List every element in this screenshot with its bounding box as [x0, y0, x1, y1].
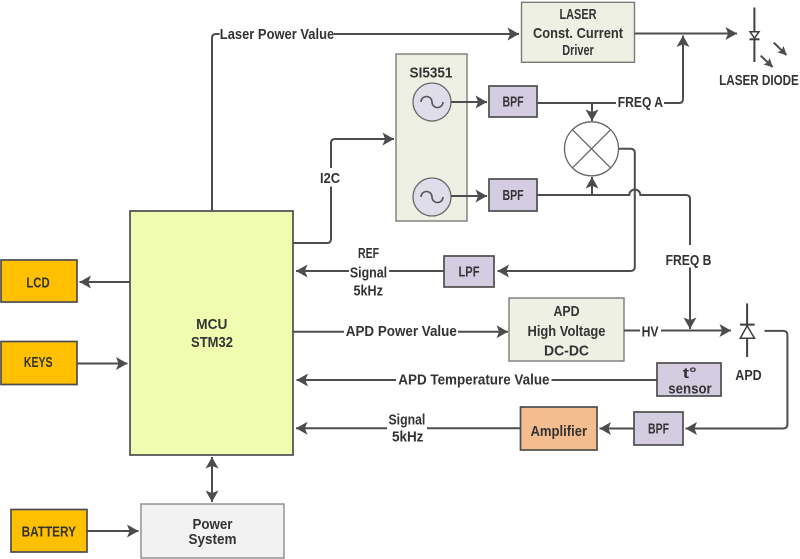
- svg-text:Amplifier: Amplifier: [530, 423, 587, 440]
- svg-text:5kHz: 5kHz: [392, 428, 424, 445]
- mixer: [565, 122, 619, 176]
- svg-text:MCU: MCU: [196, 316, 227, 333]
- wire APD Power Value from MCU: [294, 331, 345, 333]
- wire BPF3 to Amplifier: [600, 428, 635, 430]
- block MCU U1 STM32: [130, 211, 293, 455]
- wire mixer output to LPF: [498, 149, 635, 271]
- svg-text:APD: APD: [735, 367, 762, 384]
- laser diode D1: [750, 8, 760, 63]
- svg-text:APD Temperature Value: APD Temperature Value: [398, 372, 549, 389]
- wire HV from DC-DC: [624, 330, 640, 332]
- svg-text:REF: REF: [358, 245, 379, 262]
- svg-text:LCD: LCD: [26, 275, 49, 292]
- block BPF3: [634, 412, 683, 445]
- wire FREQ A from BPF1: [538, 102, 617, 104]
- wire Signal 5kHz into MCU: [296, 427, 387, 429]
- block BPF2: [489, 179, 537, 211]
- wire Laser Power Value to driver: [334, 33, 519, 35]
- block BPF1: [489, 86, 537, 117]
- wire FREQ B down to HV line: [689, 268, 691, 330]
- wire APD Temperature Value from sensor: [552, 379, 658, 381]
- block BATTERY: [11, 510, 87, 553]
- svg-text:High Voltage: High Voltage: [528, 323, 606, 340]
- wire BPF2 to FREQ B corner with hop: [538, 190, 691, 245]
- wire REF signal into MCU: [296, 270, 349, 272]
- wire OSC1 to BPF1: [451, 101, 487, 103]
- svg-text:FREQ B: FREQ B: [666, 252, 712, 269]
- svg-text:FREQ A: FREQ A: [618, 94, 663, 111]
- wire FREQ A branch down into mixer: [591, 103, 593, 121]
- block LCD: [1, 260, 77, 302]
- svg-text:Signal: Signal: [389, 411, 426, 428]
- wire Laser Power Value elbow from MCU top: [212, 34, 220, 211]
- block LASER Const. Current Driver: [522, 2, 635, 62]
- svg-text:sensor: sensor: [668, 380, 712, 397]
- block Power System: [141, 504, 284, 558]
- block SI5351 clock generator: [396, 54, 467, 221]
- wire driver output to laser diode: [635, 33, 738, 35]
- svg-text:APD Power Value: APD Power Value: [346, 323, 457, 340]
- block temperature sensor: [657, 363, 721, 397]
- svg-text:HV: HV: [642, 323, 659, 340]
- wire I2C from MCU to SI5351: [294, 187, 332, 244]
- svg-text:LASER: LASER: [560, 6, 597, 23]
- svg-text:Driver: Driver: [562, 42, 594, 59]
- svg-text:KEYS: KEYS: [24, 354, 53, 371]
- block LPF: [444, 256, 494, 287]
- laser diode emission arrow upper: [774, 43, 787, 55]
- svg-text:BPF: BPF: [503, 187, 524, 204]
- wire HV into APD: [661, 330, 731, 332]
- svg-text:Const. Current: Const. Current: [533, 25, 623, 42]
- wire APD Power Value into DC-DC: [458, 331, 508, 333]
- svg-text:System: System: [189, 531, 237, 548]
- wire REF signal from LPF: [389, 270, 444, 272]
- wire KEYS to MCU: [77, 363, 128, 365]
- wire Signal 5kHz from Amplifier: [427, 427, 521, 429]
- wire BATTERY to Power System: [87, 530, 139, 532]
- svg-text:BPF: BPF: [648, 421, 669, 438]
- block APD High Voltage DC-DC: [509, 298, 624, 361]
- svg-text:Signal: Signal: [350, 265, 387, 282]
- laser diode emission arrow lower: [761, 56, 773, 67]
- wire APD output down to BPF3: [686, 331, 788, 429]
- svg-text:5kHz: 5kHz: [354, 283, 383, 300]
- svg-text:SI5351: SI5351: [410, 65, 453, 82]
- svg-text:LPF: LPF: [459, 264, 480, 281]
- block KEYS: [1, 342, 77, 385]
- block Amplifier: [521, 407, 598, 450]
- wire BPF2 branch up into mixer: [591, 177, 593, 195]
- wire FREQ A corner up to laser line: [664, 36, 683, 104]
- oscillator OSC1: [413, 83, 451, 121]
- svg-text:Laser Power Value: Laser Power Value: [220, 26, 334, 43]
- wire APD Temperature Value into MCU: [297, 379, 397, 381]
- svg-text:APD: APD: [554, 303, 580, 320]
- oscillator OSC2: [413, 178, 451, 216]
- svg-text:DC-DC: DC-DC: [544, 342, 589, 359]
- svg-text:BATTERY: BATTERY: [22, 524, 76, 541]
- svg-text:LASER DIODE: LASER DIODE: [719, 72, 799, 89]
- wire OSC2 to BPF2: [451, 195, 487, 197]
- wire MCU to Power System double arrow: [211, 457, 213, 502]
- photodiode APD: [740, 303, 755, 357]
- svg-text:BPF: BPF: [503, 94, 524, 111]
- svg-text:I2C: I2C: [320, 170, 340, 187]
- wire MCU to LCD: [80, 281, 131, 283]
- svg-text:STM32: STM32: [191, 334, 233, 351]
